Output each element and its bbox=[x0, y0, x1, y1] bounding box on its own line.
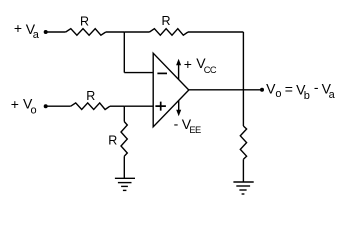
resistor R2 feedback bbox=[150, 29, 189, 36]
wire Vb to R3 bbox=[46, 105, 71, 107]
svg-text:R: R bbox=[86, 89, 95, 103]
svg-text:a: a bbox=[329, 89, 336, 101]
svg-text:=: = bbox=[285, 81, 293, 97]
svg-text:b: b bbox=[304, 90, 310, 102]
op-amp non-inverting input symbol + bbox=[155, 102, 166, 111]
svg-text:-: - bbox=[174, 115, 179, 131]
wire node A to R2 bbox=[124, 31, 149, 33]
label +Vcc bbox=[184, 55, 217, 75]
wire R3 to node B bbox=[110, 105, 124, 107]
value label R3 bbox=[86, 89, 95, 103]
svg-text:+: + bbox=[14, 20, 22, 36]
svg-text:R: R bbox=[161, 14, 170, 28]
wire op-amp output bbox=[189, 89, 262, 91]
svg-text:o: o bbox=[275, 88, 281, 100]
wire R4 to ground bbox=[123, 156, 125, 178]
wire node B down to R4 bbox=[123, 106, 125, 121]
ground G1 bbox=[115, 178, 135, 190]
value label R4 bbox=[108, 134, 117, 148]
svg-text:o: o bbox=[31, 104, 37, 116]
svg-text:+: + bbox=[184, 56, 192, 72]
VEE supply arrow bbox=[176, 101, 181, 117]
svg-text:+: + bbox=[11, 96, 19, 112]
wire R1 to node A bbox=[106, 31, 125, 33]
op-amp U1 bbox=[153, 53, 189, 127]
svg-text:R: R bbox=[108, 134, 117, 148]
svg-text:CC: CC bbox=[204, 65, 217, 75]
svg-text:EE: EE bbox=[189, 125, 201, 135]
wire output node down to R5 bbox=[242, 90, 244, 126]
resistor R4 to ground bbox=[121, 122, 127, 157]
svg-text:R: R bbox=[80, 14, 89, 28]
label +Vb input (shown as +Vo) bbox=[11, 96, 37, 117]
label -VEE bbox=[174, 115, 201, 135]
wire feedback vertical down to output node bbox=[242, 32, 244, 90]
svg-text:-: - bbox=[314, 79, 319, 95]
wire inverting input bbox=[124, 72, 153, 74]
node Vo output dot bbox=[260, 88, 264, 92]
label +Va bbox=[14, 20, 40, 41]
node Va terminal dot bbox=[44, 30, 48, 34]
wire node B to non-inverting input bbox=[124, 105, 153, 107]
value label R1 bbox=[80, 14, 89, 28]
node Vo(b) terminal dot bbox=[44, 104, 48, 108]
resistor R5 load bbox=[240, 126, 246, 159]
label Vo = Vb - Va bbox=[266, 79, 336, 102]
resistor R3 bbox=[71, 103, 110, 110]
svg-text:a: a bbox=[33, 29, 40, 41]
node A junction (top rail to inverting input) bbox=[123, 32, 125, 73]
resistor R1 bbox=[66, 29, 106, 36]
Vcc supply arrow bbox=[176, 59, 181, 80]
value label R2 bbox=[161, 14, 170, 28]
wire R5 to ground bbox=[242, 159, 244, 182]
wire R2 to feedback corner bbox=[188, 31, 243, 33]
ground G2 bbox=[233, 182, 253, 194]
op-amp inverting input symbol - bbox=[157, 72, 167, 74]
wire Va to R1 bbox=[46, 31, 66, 33]
